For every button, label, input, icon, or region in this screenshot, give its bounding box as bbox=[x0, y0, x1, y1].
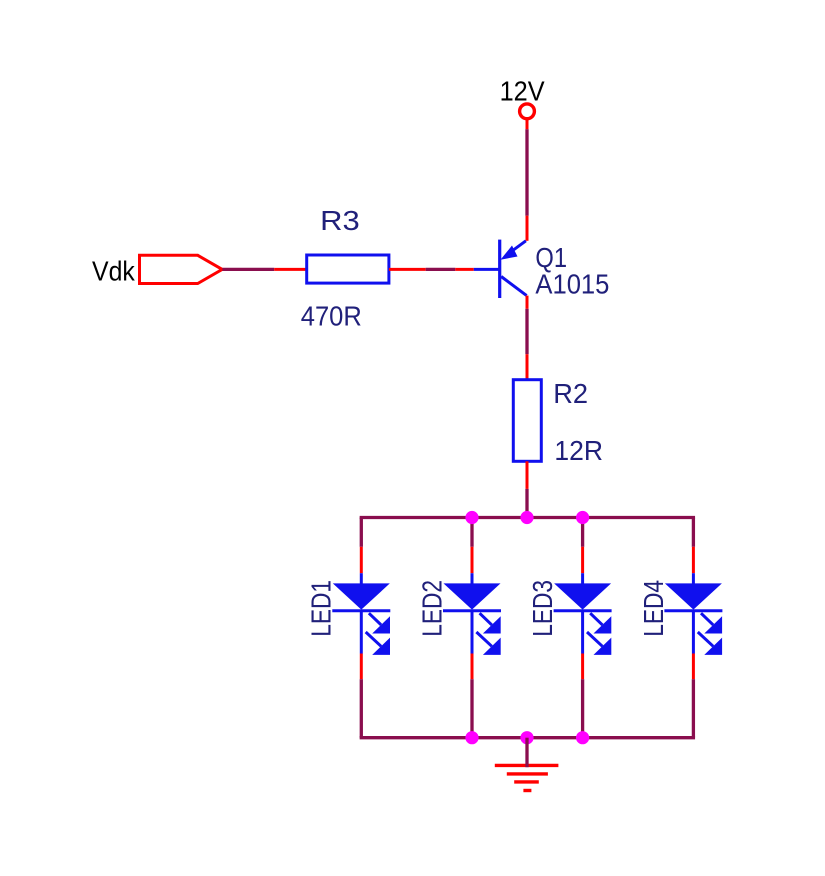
svg-text:12R: 12R bbox=[554, 435, 603, 466]
wire Vdk to R3 bbox=[222, 268, 274, 271]
pin wire R3 left bbox=[274, 268, 307, 271]
LED LED1 bbox=[332, 573, 390, 655]
junction top bus x=582.6 bbox=[576, 511, 589, 524]
wire R3 to Q1 base bbox=[426, 268, 456, 271]
svg-text:R2: R2 bbox=[553, 378, 588, 409]
junction bottom bus x=527.0 bbox=[520, 731, 533, 744]
pin wire LED1 cathode bbox=[360, 654, 363, 680]
junction top bus x=527.0 bbox=[520, 511, 533, 524]
pin wire LED3 cathode bbox=[581, 654, 584, 680]
pin wire LED2 cathode bbox=[471, 654, 474, 680]
wire bus to LED4 anode bbox=[692, 518, 695, 547]
wire bus to LED2 anode bbox=[470, 518, 473, 547]
pin wire LED4 cathode bbox=[692, 654, 695, 680]
pin wire Q1 base bbox=[455, 268, 474, 271]
LED LED3 bbox=[554, 573, 612, 655]
wire LED3 cathode to bus bbox=[581, 679, 584, 738]
svg-text:R3: R3 bbox=[320, 205, 360, 236]
svg-text:Vdk: Vdk bbox=[92, 256, 135, 287]
pin wire R2 bottom bbox=[526, 461, 529, 489]
wire LED1 cathode to bus bbox=[360, 679, 363, 738]
LED LED4 bbox=[664, 573, 722, 655]
junction bottom bus x=472.0 bbox=[465, 731, 478, 744]
ground bbox=[495, 765, 559, 790]
pin wire LED2 anode bbox=[471, 547, 474, 573]
junction bottom bus x=582.6 bbox=[576, 731, 589, 744]
LED LED2 bbox=[443, 573, 501, 655]
svg-text:12V: 12V bbox=[500, 75, 546, 106]
bottom bus wire bbox=[361, 736, 693, 739]
svg-text:LED1: LED1 bbox=[306, 580, 337, 637]
pin wire LED4 anode bbox=[692, 547, 695, 573]
pin wire R2 top bbox=[526, 354, 529, 380]
wire 12V net bbox=[525, 129, 528, 215]
junction top bus x=472.0 bbox=[465, 511, 478, 524]
wire R2 to LED bus bbox=[525, 489, 528, 518]
wire LED2 cathode to bus bbox=[470, 679, 473, 738]
wire bus to LED1 anode bbox=[360, 518, 363, 547]
resistor R3 bbox=[307, 255, 389, 283]
svg-text:470R: 470R bbox=[301, 300, 362, 331]
svg-text:LED2: LED2 bbox=[416, 580, 447, 637]
resistor R2 bbox=[513, 380, 541, 462]
port Vdk bbox=[140, 255, 223, 283]
transistor Q1 bbox=[474, 240, 527, 298]
pin wire Q1 collector bbox=[526, 296, 529, 309]
top bus wire bbox=[361, 516, 693, 519]
svg-text:A1015: A1015 bbox=[535, 268, 609, 299]
pin wire R3 right bbox=[389, 268, 426, 271]
wire bus to ground bbox=[525, 738, 528, 768]
svg-text:LED4: LED4 bbox=[638, 580, 669, 637]
wire bus to LED3 anode bbox=[581, 518, 584, 547]
pin wire Q1 emitter bbox=[526, 216, 529, 241]
pin wire LED3 anode bbox=[581, 547, 584, 573]
terminal 12V bbox=[520, 104, 535, 119]
pin wire terminal 12V bbox=[526, 119, 529, 130]
pin wire LED1 anode bbox=[360, 547, 363, 573]
wire LED4 cathode to bus bbox=[692, 679, 695, 738]
wire Q1 collector to R2 bbox=[525, 309, 528, 354]
svg-text:LED3: LED3 bbox=[527, 580, 558, 637]
